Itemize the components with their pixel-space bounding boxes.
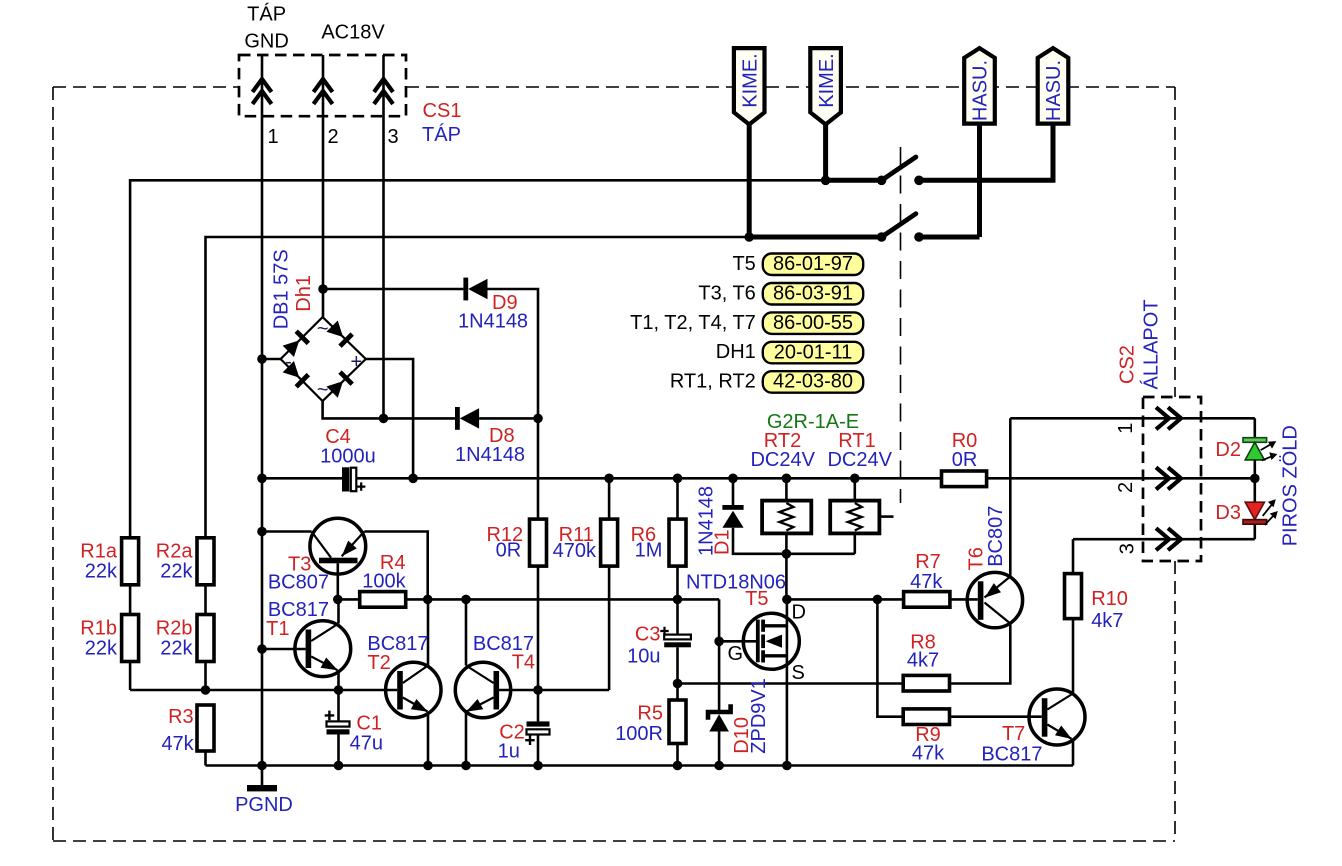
svg-text:ÁLLAPOT: ÁLLAPOT: [1140, 299, 1163, 389]
node C4 left: [257, 474, 267, 484]
svg-text:47k: 47k: [912, 743, 945, 765]
wire KIME2 node to switch 1 left contact: [826, 178, 882, 183]
transistor T2 BC817: [386, 599, 441, 765]
svg-text:~: ~: [317, 379, 329, 401]
node C1 bottom: [334, 761, 344, 771]
connector CS2 dashed box: [1143, 397, 1201, 561]
wire base bias node: [130, 689, 397, 692]
zener D10 ZPD9V1: [708, 641, 731, 765]
svg-text:470k: 470k: [553, 540, 597, 562]
svg-text:KIME.: KIME.: [739, 53, 761, 107]
svg-text:86-00-55: 86-00-55: [773, 312, 853, 334]
svg-text:1N4148: 1N4148: [455, 444, 525, 466]
wire R1a-R1b: [129, 585, 132, 615]
svg-text:D2: D2: [1215, 439, 1241, 461]
wire switch 2 right contact to HASU1 stem: [919, 235, 980, 240]
node rail RT2: [782, 474, 792, 484]
wire gate feed: [719, 599, 757, 641]
svg-text:86-03-91: 86-03-91: [773, 283, 853, 305]
resistor R10: [1065, 574, 1082, 619]
CS2 pin 1 arrow: [1156, 407, 1181, 429]
svg-text:BC817: BC817: [981, 744, 1042, 766]
svg-text:3: 3: [1116, 543, 1138, 554]
node T3 base / R4 left / T1 collector: [333, 595, 343, 605]
resistor R2b: [197, 615, 214, 662]
wire drain node to R7: [787, 598, 904, 601]
CS1 pin 2 column: [322, 55, 325, 317]
svg-text:AC18V: AC18V: [321, 22, 385, 44]
CS2 pin 3 wire: [1073, 538, 1255, 541]
node rail D1: [728, 474, 738, 484]
svg-text:1N4148: 1N4148: [458, 311, 528, 333]
node T4 collector: [461, 595, 471, 605]
svg-text:PIROS ZÖLD: PIROS ZÖLD: [1280, 425, 1302, 546]
wire T4 base node to R11: [538, 689, 609, 692]
node T4 base / R12 / C2: [533, 685, 543, 695]
svg-text:~: ~: [317, 318, 329, 340]
svg-text:10u: 10u: [627, 646, 660, 668]
node C2 bottom: [533, 761, 543, 771]
connector CS1 dashed box: [239, 55, 406, 116]
node R4 right / T2 collector / T3 collector: [423, 595, 433, 605]
svg-text:C1: C1: [356, 713, 382, 735]
svg-text:TÁP: TÁP: [422, 123, 461, 146]
svg-text:DC24V: DC24V: [827, 449, 892, 471]
svg-text:G: G: [728, 643, 744, 665]
wire R2a-R2b: [204, 585, 207, 615]
svg-text:22k: 22k: [160, 638, 193, 660]
wire bridge left to GND bus: [262, 358, 281, 361]
resistor R11: [608, 478, 611, 519]
svg-text:1: 1: [267, 126, 278, 148]
svg-text:CS1: CS1: [423, 100, 462, 122]
svg-text:DB1 57S: DB1 57S: [271, 249, 293, 329]
node LED junction: [1250, 474, 1260, 484]
diode D1 1N4148: [722, 478, 854, 554]
svg-text:20-01-11: 20-01-11: [774, 341, 853, 363]
diode top-right: [326, 320, 354, 348]
resistor R8: [903, 675, 949, 691]
svg-text:HASU.: HASU.: [1043, 60, 1065, 121]
svg-text:4k7: 4k7: [1091, 610, 1123, 632]
CS1 pin 1 arrow: [253, 79, 272, 104]
ground PGND: [261, 766, 264, 786]
svg-text:PGND: PGND: [235, 794, 293, 816]
wire source rail: [678, 682, 904, 685]
svg-text:R2b: R2b: [156, 618, 193, 640]
node T5 source at rail: [782, 761, 792, 771]
node KIME2 junction: [821, 176, 831, 186]
parts table value boxes: [763, 253, 863, 393]
svg-text:R1b: R1b: [80, 618, 117, 640]
node pin3 / D8 wire: [379, 414, 389, 424]
node rail R6: [673, 474, 683, 484]
svg-text:1M: 1M: [635, 540, 663, 562]
wire relay node to T5 drain: [785, 554, 788, 600]
node D9 top (pin2 column): [318, 284, 328, 294]
svg-text:47k: 47k: [161, 733, 194, 755]
svg-text:DH1: DH1: [716, 341, 756, 363]
wire R2b bottom: [204, 662, 207, 691]
svg-text:HASU.: HASU.: [970, 60, 992, 121]
svg-text:CS2: CS2: [1116, 345, 1138, 384]
svg-text:BC807: BC807: [268, 572, 329, 594]
svg-text:86-01-97: 86-01-97: [773, 253, 853, 275]
LED D3 (red): [1243, 499, 1278, 539]
outer dashed boundary: [53, 87, 1175, 841]
node D8/D9/R12: [533, 414, 543, 424]
svg-text:D3: D3: [1215, 502, 1241, 524]
svg-text:ZPD9V1: ZPD9V1: [748, 678, 770, 754]
switch S1: [877, 157, 924, 185]
svg-text:T5: T5: [745, 588, 768, 610]
LED D2 (green): [1243, 418, 1277, 502]
svg-text:+: +: [351, 351, 363, 373]
svg-text:C3: C3: [635, 624, 661, 646]
svg-text:R7: R7: [915, 551, 941, 573]
svg-text:2: 2: [1115, 482, 1137, 493]
relay RT2 coil: [762, 478, 811, 554]
node T4 emitter: [461, 761, 471, 771]
node T5 drain: [782, 595, 792, 605]
svg-text:4k7: 4k7: [907, 650, 939, 672]
svg-text:Dh1: Dh1: [293, 275, 315, 312]
node PGND column: [257, 761, 267, 771]
resistor R12: [537, 418, 540, 519]
wire R1a top to switch 1: [130, 180, 826, 538]
resistor R5: [669, 700, 686, 744]
svg-text:NTD18N06: NTD18N06: [686, 572, 786, 594]
node C3 top / R6 bottom: [673, 595, 683, 605]
node C3 bottom / R5 top: [673, 679, 683, 689]
svg-text:R2a: R2a: [156, 541, 194, 563]
relay RT1 coil: [830, 478, 893, 554]
diode bottom-right: [326, 370, 354, 398]
node R5 bottom: [673, 761, 683, 771]
node R7/R9 tap: [873, 595, 883, 605]
svg-text:T4: T4: [512, 652, 535, 674]
svg-text:KIME.: KIME.: [816, 53, 838, 107]
switch S2: [877, 214, 924, 242]
svg-text:47u: 47u: [350, 733, 383, 755]
wire switch 1 right contact to HASU2 stem: [919, 123, 1053, 180]
node relay return: [782, 549, 792, 559]
diode top-left: [282, 330, 310, 358]
svg-text:1: 1: [1115, 423, 1137, 434]
node T1 base / GND bus: [257, 644, 267, 654]
resistor R1b: [122, 615, 139, 662]
svg-text:3: 3: [387, 126, 398, 148]
wire KIME1 stem: [747, 123, 752, 237]
resistor R1a: [122, 538, 139, 585]
node bridge minus: [257, 354, 267, 364]
resistor R7: [904, 592, 950, 608]
resistor R4: [338, 598, 360, 601]
capacitor C2: [525, 690, 549, 766]
CS2 pin 3 arrow: [1156, 528, 1181, 550]
transistor T3 BC807: [262, 518, 428, 599]
svg-text:T3, T6: T3, T6: [698, 282, 755, 304]
flag HASU. 1: [964, 48, 995, 124]
node T2 emitter: [423, 761, 433, 771]
mosfet T5 NTD18N06: [743, 599, 799, 765]
diode D8: [455, 407, 538, 430]
CS1 pin 2 arrow: [314, 79, 333, 104]
svg-text:100R: 100R: [615, 723, 663, 745]
flag KIME. 2: [810, 48, 841, 124]
capacitor C4: [262, 467, 413, 491]
transistor T4 BC817 (mirrored): [455, 599, 538, 765]
node R3 top: [201, 685, 211, 695]
CS2 pin 2 arrow: [1156, 467, 1181, 489]
dashed divider line: [900, 147, 902, 503]
svg-text:0R: 0R: [952, 449, 978, 471]
ground rail (bottom): [206, 764, 1074, 767]
svg-text:R10: R10: [1091, 588, 1128, 610]
wire KIME1 node to switch 2 left contact: [749, 235, 881, 240]
node rail RT1: [850, 474, 860, 484]
resistor R6: [669, 519, 686, 566]
wire HASU1 stem: [977, 123, 982, 237]
wire bridge bottom to D8: [323, 401, 455, 418]
node D10 bottom: [714, 761, 724, 771]
diode bottom-left: [282, 361, 310, 389]
transistor T6 BC807 (PNP): [967, 418, 1022, 628]
svg-text:T2: T2: [367, 652, 390, 674]
node T1 emitter / C1 top: [334, 685, 344, 695]
resistor R3: [197, 705, 214, 751]
CS1 pin 3 arrow: [374, 79, 393, 104]
transistor T7 BC817: [1029, 619, 1085, 766]
svg-text:TÁP: TÁP: [247, 3, 286, 26]
svg-text:-: -: [285, 351, 292, 373]
svg-text:100k: 100k: [362, 571, 406, 593]
svg-text:42-03-80: 42-03-80: [773, 371, 853, 393]
wire bridge plus output: [366, 359, 413, 478]
svg-text:D1: D1: [712, 529, 734, 555]
wire tap down to R9: [877, 599, 903, 716]
wire R1b bottom: [129, 662, 132, 691]
svg-text:1u: 1u: [498, 741, 520, 763]
wire KIME2 stem: [823, 123, 828, 180]
node T3 emitter / GND bus: [257, 527, 267, 537]
wire R2a top to KIME1 node: [206, 237, 750, 538]
flag KIME. 1: [734, 48, 765, 124]
svg-text:T1, T2, T4, T7: T1, T2, T4, T7: [630, 312, 756, 334]
svg-text:2: 2: [327, 126, 338, 148]
svg-text:D: D: [792, 602, 806, 624]
svg-text:47k: 47k: [910, 571, 943, 593]
svg-text:T5: T5: [732, 253, 755, 275]
bridge rectifier DB1: [281, 317, 366, 401]
resistor R2a: [197, 538, 214, 585]
node rail R11: [604, 474, 614, 484]
svg-text:1000u: 1000u: [320, 446, 376, 468]
svg-text:T7: T7: [1002, 723, 1025, 745]
flag HASU. 2: [1038, 48, 1069, 124]
CS2 pin 1 wire: [1010, 417, 1255, 420]
svg-text:RT1, RT2: RT1, RT2: [670, 371, 756, 393]
svg-text:BC807: BC807: [985, 506, 1007, 567]
svg-text:22k: 22k: [85, 638, 118, 660]
CS1 pin 1 column (GND bus): [261, 55, 264, 764]
CS1 pin 3 column: [382, 55, 385, 418]
capacitor C1: [325, 690, 350, 766]
svg-text:GND: GND: [244, 31, 288, 53]
svg-text:S: S: [792, 662, 805, 684]
svg-text:R1a: R1a: [80, 541, 118, 563]
capacitor C3: [660, 599, 691, 683]
resistor R9: [903, 709, 949, 725]
svg-text:22k: 22k: [160, 561, 193, 583]
svg-text:T1: T1: [266, 618, 289, 640]
svg-text:DC24V: DC24V: [750, 449, 815, 471]
svg-text:R3: R3: [168, 706, 194, 728]
resistor R0: [942, 471, 987, 487]
wire R3 bottom: [204, 751, 207, 766]
main +V rail: [413, 477, 941, 480]
node KIME1 junction: [744, 232, 754, 242]
node gate / D10: [714, 637, 724, 647]
svg-text:0R: 0R: [496, 540, 522, 562]
svg-text:22k: 22k: [85, 561, 118, 583]
svg-text:R5: R5: [637, 703, 663, 725]
diode D9: [323, 278, 538, 419]
node C4 right / bridge plus: [408, 474, 418, 484]
transistor T1 BC817: [262, 599, 351, 690]
